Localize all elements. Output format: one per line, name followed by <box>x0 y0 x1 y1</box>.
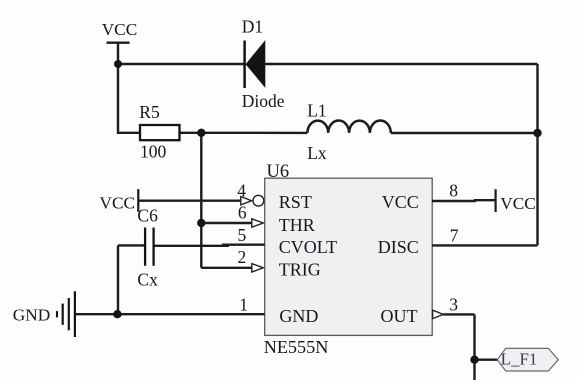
svg-text:CVOLT: CVOLT <box>279 237 337 257</box>
svg-text:D1: D1 <box>242 17 263 37</box>
svg-text:C6: C6 <box>137 206 158 226</box>
svg-text:DISC: DISC <box>378 237 419 257</box>
svg-text:1: 1 <box>239 294 248 314</box>
svg-text:3: 3 <box>449 294 458 314</box>
svg-text:VCC: VCC <box>500 194 536 213</box>
svg-text:6: 6 <box>238 203 247 223</box>
svg-text:R5: R5 <box>139 102 160 122</box>
svg-text:L_F1: L_F1 <box>501 349 538 368</box>
svg-text:Diode: Diode <box>242 91 285 111</box>
svg-text:TRIG: TRIG <box>279 260 321 280</box>
svg-text:NE555N: NE555N <box>264 337 329 357</box>
svg-text:2: 2 <box>238 247 247 267</box>
svg-text:Lx: Lx <box>307 143 327 163</box>
svg-text:U6: U6 <box>267 162 290 182</box>
svg-text:GND: GND <box>13 306 50 325</box>
svg-text:OUT: OUT <box>381 306 418 326</box>
svg-text:RST: RST <box>279 192 312 212</box>
svg-text:8: 8 <box>449 180 458 200</box>
svg-text:VCC: VCC <box>100 194 136 213</box>
svg-text:VCC: VCC <box>102 20 138 39</box>
svg-text:L1: L1 <box>307 101 326 121</box>
svg-text:5: 5 <box>237 225 246 245</box>
svg-text:GND: GND <box>279 306 318 326</box>
svg-text:Cx: Cx <box>137 269 158 289</box>
svg-text:4: 4 <box>237 180 246 200</box>
svg-text:100: 100 <box>140 142 167 162</box>
svg-text:7: 7 <box>450 225 459 245</box>
svg-text:THR: THR <box>279 215 315 235</box>
svg-text:VCC: VCC <box>382 192 419 212</box>
